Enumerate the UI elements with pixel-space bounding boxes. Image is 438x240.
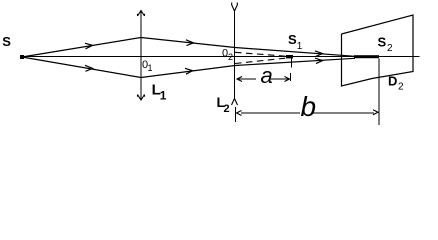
- L2 bottom inverted arrowhead: [232, 99, 238, 106]
- screen D2 (trapezoid in perspective): [342, 15, 414, 86]
- L2 top inverted arrowhead: [232, 3, 238, 12]
- L1 top arrowhead: [138, 11, 145, 17]
- ray upper L2 to S2: [235, 48, 355, 57]
- tick below L2 at left end of dimension b: [235, 107, 237, 122]
- arrowhead on upper ray before L1: [85, 43, 93, 49]
- svg-text:2: 2: [224, 103, 230, 115]
- source point dot: [20, 55, 24, 59]
- dimension b line: [241, 112, 374, 114]
- wire optical axis: [22, 56, 420, 58]
- dimension a arrowheads: [237, 77, 290, 82]
- svg-text:D: D: [388, 74, 397, 89]
- tick below S2 down through dimension b: [378, 59, 380, 126]
- ray lower L1 to L2: [141, 66, 235, 78]
- svg-text:1: 1: [160, 89, 167, 103]
- image point S2 (thick bar): [354, 55, 379, 58]
- svg-text:2: 2: [228, 52, 233, 62]
- ray upper L1 to L2: [141, 38, 235, 48]
- svg-text:1: 1: [148, 63, 153, 73]
- tick at right end of dimension a: [290, 73, 292, 81]
- svg-text:S: S: [288, 32, 297, 47]
- arrowhead on upper ray after L1: [186, 40, 194, 46]
- arrowhead on upper ray after S1: [315, 51, 323, 56]
- dimension b arrowheads: [237, 110, 379, 116]
- svg-text:b: b: [301, 91, 317, 122]
- arrowhead on lower ray after L1: [185, 68, 193, 74]
- svg-text:S: S: [2, 34, 11, 49]
- dimension a line: [237, 78, 289, 80]
- image point S1 (thick bar): [286, 55, 293, 58]
- svg-text:1: 1: [297, 41, 303, 52]
- lens L2 (diverging, inverted-arrow symbol): [234, 11, 236, 99]
- svg-text:2: 2: [398, 82, 404, 93]
- svg-text:S: S: [378, 34, 387, 49]
- arrowhead on lower ray before L1: [85, 65, 93, 71]
- ray lower S to L1: [22, 57, 141, 78]
- dashed ray upper L2 to S1: [235, 52, 287, 56]
- ray lower L2 to S2: [235, 58, 355, 65]
- dashed ray lower L2 to S1: [235, 58, 287, 64]
- L1 bottom arrowhead: [138, 95, 145, 101]
- arrowhead on lower ray after S1: [315, 58, 323, 64]
- tick below S1: [291, 59, 293, 68]
- svg-text:2: 2: [387, 43, 393, 54]
- lens L1 (converging, double-arrow symbol): [140, 11, 142, 101]
- ray upper S to L1: [22, 38, 141, 58]
- svg-text:a: a: [261, 63, 273, 88]
